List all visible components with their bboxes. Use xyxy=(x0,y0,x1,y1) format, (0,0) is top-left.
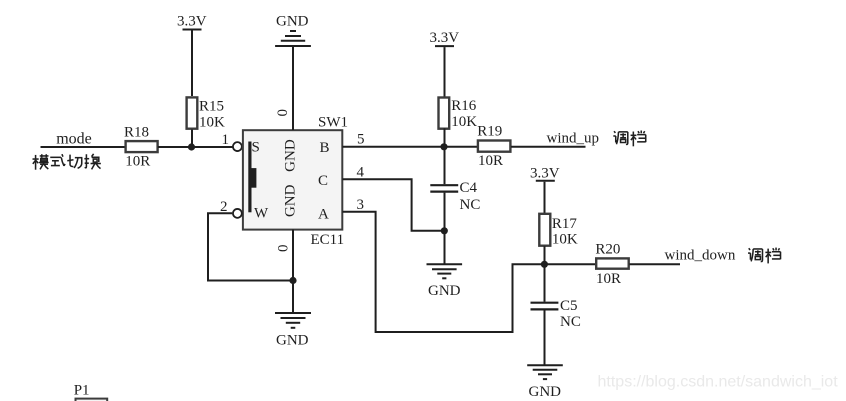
label 调档 (wind_down) xyxy=(748,248,780,264)
svg-text:10R: 10R xyxy=(596,271,621,287)
svg-text:3.3V: 3.3V xyxy=(530,166,560,182)
svg-text:https://blog.csdn.net/sandwich: https://blog.csdn.net/sandwich_iot xyxy=(598,374,839,391)
wire pin C to junction xyxy=(342,179,444,231)
svg-text:C4: C4 xyxy=(460,180,478,196)
power 3.3V (R17 pull-up) xyxy=(536,181,555,214)
wire encoder bottom to ground xyxy=(292,230,294,314)
svg-text:R19: R19 xyxy=(477,123,502,139)
label 模式切换 xyxy=(32,154,100,170)
label 调档 (wind_up) xyxy=(613,130,645,146)
wire pin A to wind_down net xyxy=(342,212,544,332)
wire R18 to pin 1 xyxy=(158,146,233,148)
svg-text:GND: GND xyxy=(428,283,461,299)
switch actuator symbol xyxy=(248,142,256,213)
svg-text:5: 5 xyxy=(357,132,365,148)
resistor R16 xyxy=(439,98,450,129)
wire GND to encoder top xyxy=(292,47,294,130)
svg-text:A: A xyxy=(318,206,329,222)
wire R16 to B net xyxy=(444,128,446,147)
svg-text:SW1: SW1 xyxy=(318,115,348,131)
wire C4 to ground junction xyxy=(444,193,446,265)
ground GND (top, inverted) xyxy=(275,31,311,46)
wire R15 to mode net xyxy=(191,130,193,148)
wire junction to R20 xyxy=(544,263,595,265)
svg-text:W: W xyxy=(254,206,269,222)
svg-text:B: B xyxy=(320,140,330,156)
capacitor C4 xyxy=(430,185,458,191)
wire mode net left xyxy=(41,146,126,148)
svg-text:R16: R16 xyxy=(451,98,477,114)
junction B net xyxy=(440,143,447,150)
power 3.3V (R15 pull-up) xyxy=(183,30,202,97)
resistor R20 xyxy=(596,258,629,268)
svg-text:GND: GND xyxy=(276,332,309,348)
svg-text:S: S xyxy=(252,139,260,155)
encoder SW1 (EC11) body xyxy=(243,130,342,229)
svg-text:NC: NC xyxy=(460,197,481,213)
junction mode/R15 xyxy=(188,143,195,150)
pin 2 circle xyxy=(233,209,242,218)
svg-text:4: 4 xyxy=(357,164,365,180)
svg-text:C: C xyxy=(318,173,328,189)
svg-text:R17: R17 xyxy=(552,216,578,232)
svg-text:0: 0 xyxy=(275,109,291,117)
svg-text:wind_down: wind_down xyxy=(665,248,736,264)
svg-text:EC11: EC11 xyxy=(311,232,345,248)
svg-text:R20: R20 xyxy=(595,241,620,257)
svg-text:3.3V: 3.3V xyxy=(177,14,207,30)
wire B net to C4 xyxy=(444,147,446,184)
power 3.3V (R16 pull-up) xyxy=(435,46,454,97)
wire R19 to wind_up xyxy=(511,146,586,148)
svg-text:R18: R18 xyxy=(124,124,149,140)
connector P1 body (clipped) xyxy=(76,399,108,401)
wire pin B net xyxy=(342,146,477,148)
resistor R18 xyxy=(126,141,158,152)
resistor R17 xyxy=(539,214,550,246)
svg-text:P1: P1 xyxy=(74,383,90,399)
svg-text:wind_up: wind_up xyxy=(547,131,600,147)
resistor R15 xyxy=(187,97,198,128)
svg-text:10K: 10K xyxy=(199,114,225,130)
svg-text:3.3V: 3.3V xyxy=(430,30,460,46)
wire pin 2 to ground net xyxy=(208,213,293,280)
wire wind_down net to C5 xyxy=(544,264,546,301)
junction bottom ground xyxy=(289,277,296,284)
svg-text:GND: GND xyxy=(529,384,562,400)
svg-text:GND: GND xyxy=(283,139,299,172)
svg-text:GND: GND xyxy=(276,13,309,29)
ground GND (bottom right) xyxy=(527,365,563,379)
capacitor C5 xyxy=(531,303,559,310)
svg-text:10R: 10R xyxy=(125,153,150,169)
ground GND (bottom middle) xyxy=(275,313,311,328)
svg-text:0: 0 xyxy=(275,244,291,252)
junction C4/C pin xyxy=(441,227,448,234)
svg-text:R15: R15 xyxy=(199,98,224,114)
junction wind_down net xyxy=(541,261,548,268)
wire C5 to ground xyxy=(544,310,546,365)
svg-text:10K: 10K xyxy=(451,114,477,130)
svg-text:1: 1 xyxy=(222,132,230,148)
wire R20 to wind_down xyxy=(629,263,680,265)
wire R17 to wind_down net xyxy=(544,246,546,264)
pin 1 circle xyxy=(233,142,242,151)
ground GND (under C4) xyxy=(427,264,463,278)
svg-text:10R: 10R xyxy=(478,153,503,169)
svg-text:GND: GND xyxy=(283,184,299,217)
svg-text:mode: mode xyxy=(56,131,92,148)
svg-text:C5: C5 xyxy=(560,298,578,314)
svg-text:10K: 10K xyxy=(552,232,578,248)
svg-text:NC: NC xyxy=(560,314,581,330)
resistor R19 xyxy=(478,141,511,152)
